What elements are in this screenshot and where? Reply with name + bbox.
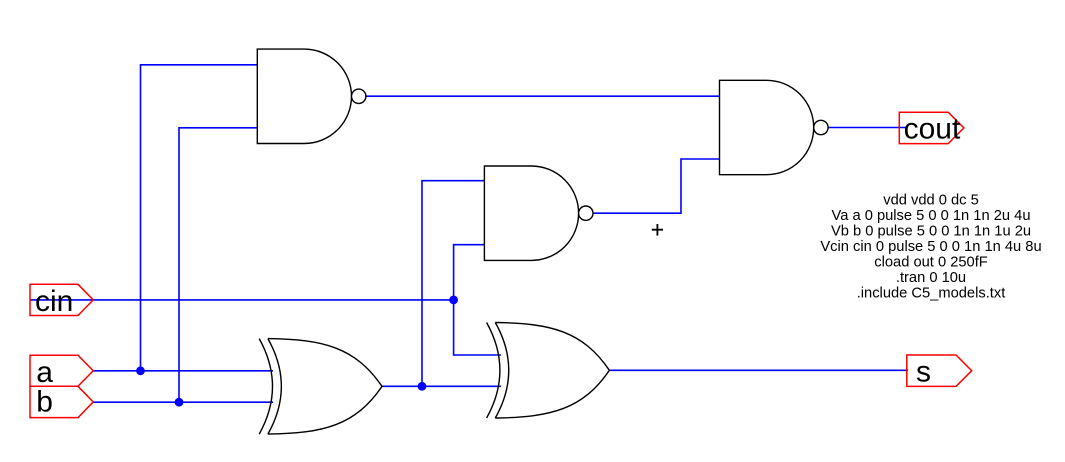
junction dot on XOR1 output [418, 382, 427, 391]
wire a branch to NAND1 top input [141, 65, 258, 371]
svg-text:cload out 0 250fF: cload out 0 250fF [874, 254, 988, 270]
wire XOR1 output to XOR2 bottom input [382, 385, 501, 387]
output port s [907, 355, 972, 389]
XOR gate U4 [259, 339, 382, 435]
junction dot on wire a [136, 366, 145, 375]
wire b branch to NAND1 bottom input [179, 128, 257, 402]
svg-text:a: a [36, 356, 53, 389]
wire NAND3 output to cout port [828, 127, 907, 129]
svg-text:.tran 0 10u: .tran 0 10u [896, 270, 966, 286]
junction dot on wire b [175, 398, 184, 407]
wire cin to NAND2 bottom input and XOR2 top input [454, 245, 501, 355]
spice netlist text [820, 192, 1041, 301]
NAND gate U3 [720, 80, 829, 174]
svg-text:cin: cin [35, 285, 73, 318]
wire XOR2 output to s port [609, 369, 908, 371]
wire b port to XOR1 bottom input [93, 401, 273, 403]
input port b [30, 386, 93, 419]
svg-text:cout: cout [904, 113, 961, 146]
NAND gate U2 [484, 166, 593, 260]
svg-text:Vcin cin 0 pulse 5 0 0 1n 1n 4: Vcin cin 0 pulse 5 0 0 1n 1n 4u 8u [820, 239, 1041, 255]
svg-text:s: s [916, 356, 931, 389]
svg-text:b: b [36, 386, 53, 419]
NAND gate U1 [257, 49, 366, 143]
wire XOR1 output branch to NAND2 top input [422, 181, 484, 387]
wire a port to XOR1 top input [93, 370, 273, 372]
plus marker [652, 224, 663, 236]
junction dot on cin wire [449, 296, 458, 305]
wire cin port to junction [31, 299, 454, 301]
wire NAND1 output to NAND3 top input [366, 95, 720, 97]
input port a [30, 355, 93, 389]
output port cout [899, 112, 964, 145]
svg-text:Vb b 0 pulse 5 0 0 1n 1n 1u 2u: Vb b 0 pulse 5 0 0 1n 1n 1u 2u [831, 223, 1031, 239]
svg-text:.include C5_models.txt: .include C5_models.txt [857, 285, 1006, 301]
input port cin [30, 284, 93, 318]
svg-text:vdd vdd 0 dc 5: vdd vdd 0 dc 5 [883, 192, 979, 208]
svg-text:Va a 0 pulse 5 0 0 1n 1n 2u 4u: Va a 0 pulse 5 0 0 1n 1n 2u 4u [832, 208, 1031, 224]
XOR gate U5 [487, 323, 610, 419]
wire NAND2 output to NAND3 bottom input [593, 159, 720, 213]
